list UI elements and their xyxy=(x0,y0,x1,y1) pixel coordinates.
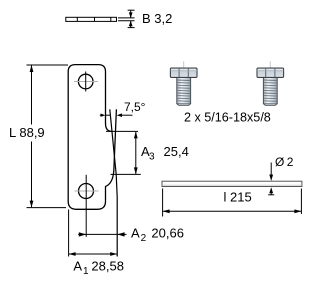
svg-text:A: A xyxy=(73,259,82,274)
svg-text:7,5°: 7,5° xyxy=(124,100,146,114)
svg-text:A: A xyxy=(131,226,140,241)
svg-text:3: 3 xyxy=(149,152,155,163)
svg-text:1: 1 xyxy=(83,266,89,277)
svg-text:l 215: l 215 xyxy=(224,190,252,205)
svg-text:28,58: 28,58 xyxy=(91,259,124,274)
svg-text:20,66: 20,66 xyxy=(151,226,184,241)
svg-text:2 x 5/16-18x5/8: 2 x 5/16-18x5/8 xyxy=(184,111,271,125)
svg-text:25,4: 25,4 xyxy=(164,144,189,159)
svg-text:L 88,9: L 88,9 xyxy=(9,125,45,140)
svg-text:2: 2 xyxy=(141,233,147,244)
svg-text:Ø 2: Ø 2 xyxy=(275,155,294,169)
svg-text:B 3,2: B 3,2 xyxy=(142,11,172,26)
